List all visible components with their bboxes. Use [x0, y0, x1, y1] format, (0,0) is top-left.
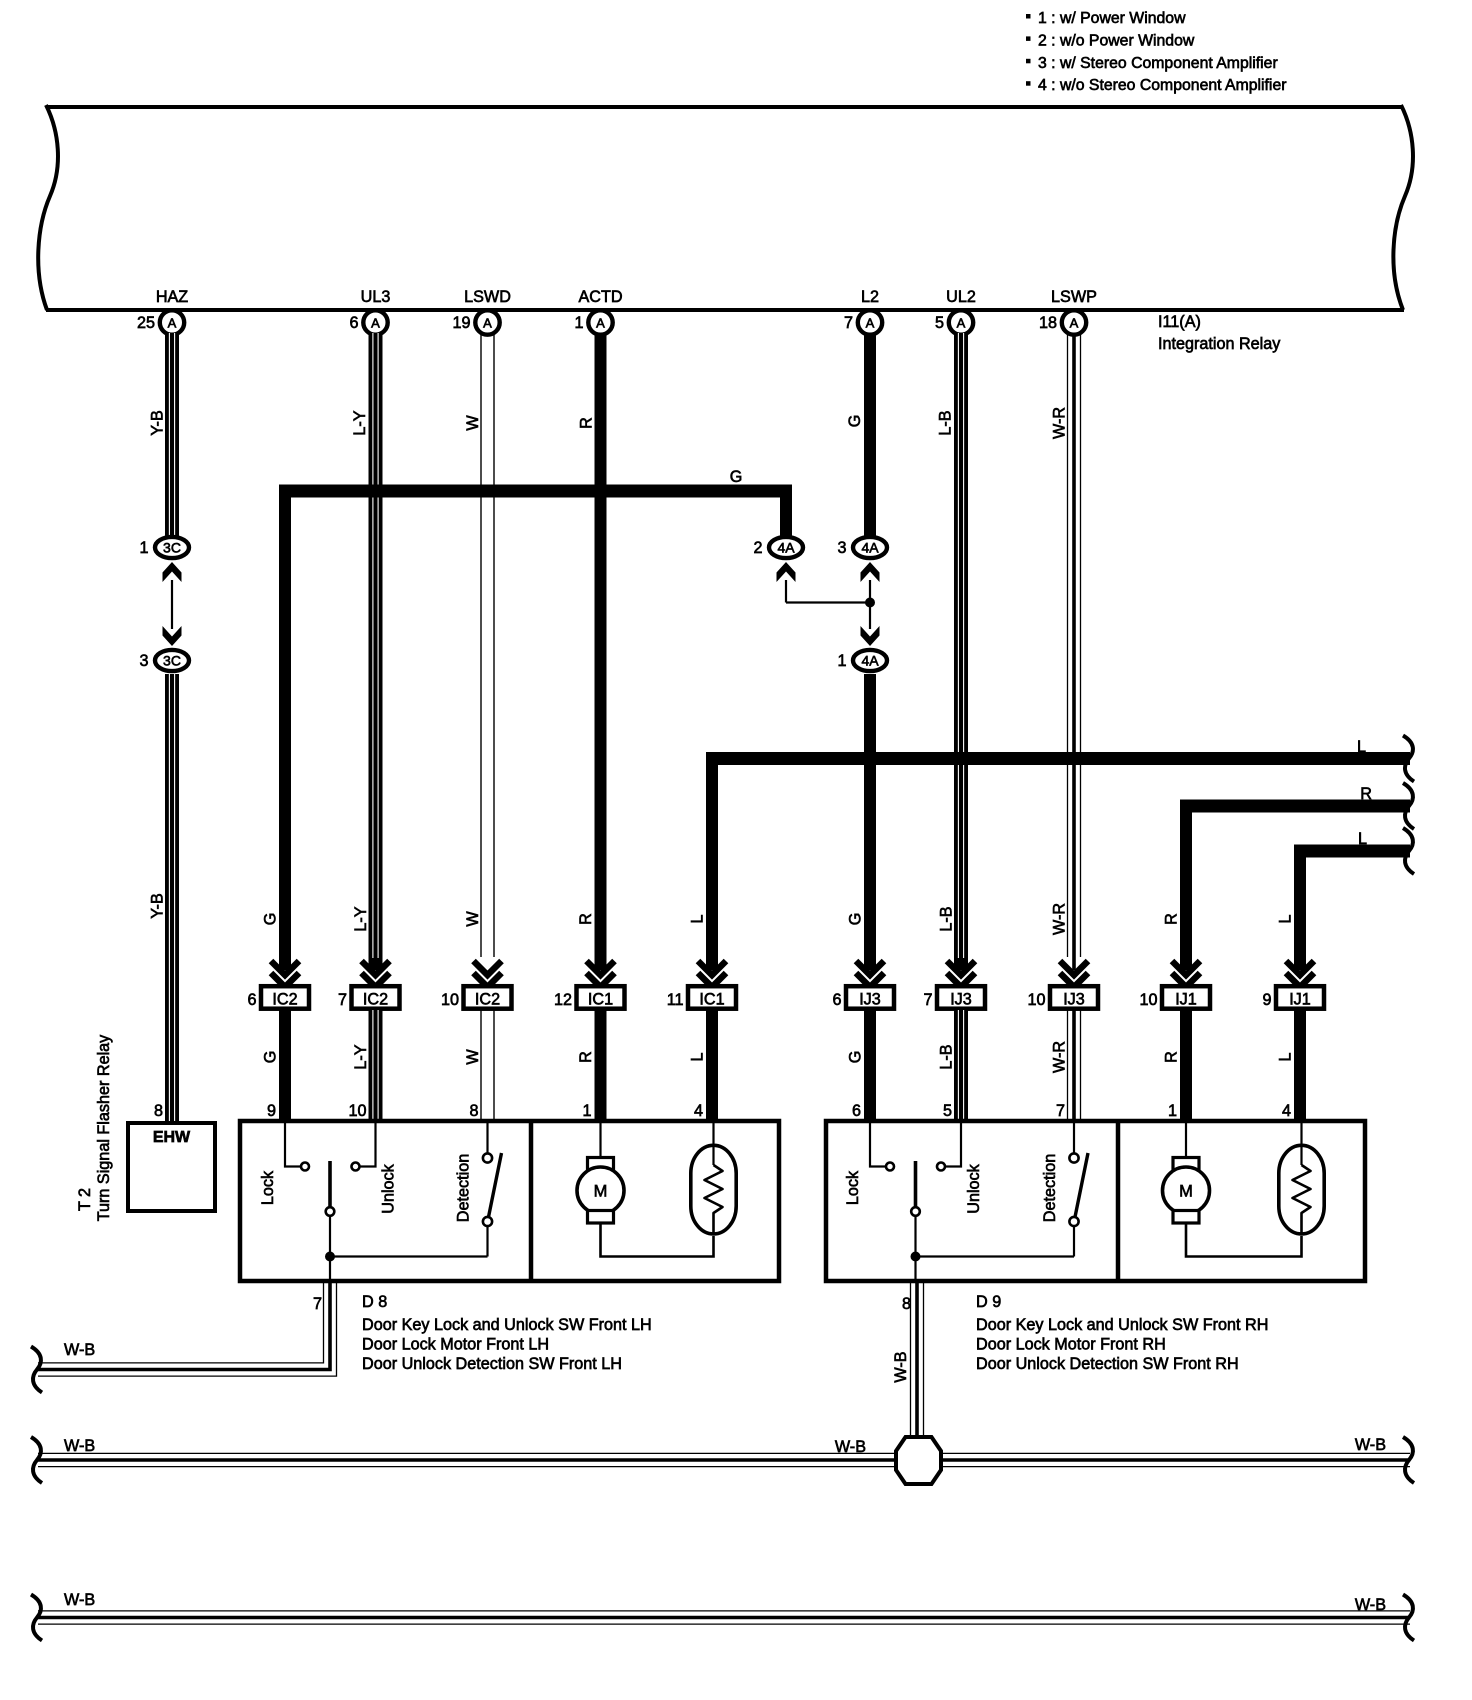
- svg-text:Integration Relay: Integration Relay: [1158, 335, 1281, 353]
- svg-text:W-B: W-B: [835, 1438, 866, 1456]
- svg-text:W-B: W-B: [1355, 1436, 1386, 1454]
- svg-text:Turn Signal Flasher Relay: Turn Signal Flasher Relay: [95, 1034, 113, 1221]
- svg-text:8: 8: [154, 1102, 163, 1120]
- svg-text:L: L: [1277, 914, 1295, 923]
- svg-text:Door Lock Motor Front RH: Door Lock Motor Front RH: [976, 1336, 1166, 1354]
- svg-text:L-Y: L-Y: [351, 410, 369, 435]
- svg-text:M: M: [594, 1183, 608, 1201]
- svg-text:11: 11: [667, 991, 684, 1009]
- svg-text:3 : w/ Stereo Component Amplif: 3 : w/ Stereo Component Amplifier: [1038, 55, 1278, 72]
- svg-text:10: 10: [1139, 991, 1157, 1009]
- svg-text:IC2: IC2: [363, 991, 388, 1009]
- svg-text:IC2: IC2: [272, 991, 297, 1009]
- svg-text:ACTD: ACTD: [578, 288, 622, 306]
- svg-text:Door Key Lock and Unlock SW Fr: Door Key Lock and Unlock SW Front LH: [362, 1316, 652, 1334]
- svg-text:LSWP: LSWP: [1051, 288, 1097, 306]
- svg-text:W-B: W-B: [64, 1591, 95, 1609]
- svg-text:IC2: IC2: [475, 991, 500, 1009]
- svg-text:W-B: W-B: [1355, 1596, 1386, 1614]
- svg-text:W-R: W-R: [1051, 407, 1069, 439]
- svg-text:M: M: [1179, 1183, 1193, 1201]
- svg-text:1: 1: [139, 539, 148, 557]
- svg-text:5: 5: [943, 1102, 952, 1120]
- svg-text:IJ3: IJ3: [859, 991, 881, 1009]
- svg-text:7: 7: [923, 991, 932, 1009]
- svg-text:A: A: [483, 316, 492, 331]
- svg-text:UL3: UL3: [361, 288, 391, 306]
- svg-text:IJ3: IJ3: [1063, 991, 1085, 1009]
- svg-text:L-Y: L-Y: [352, 1044, 370, 1069]
- svg-text:L: L: [1277, 1052, 1295, 1061]
- svg-text:W-B: W-B: [64, 1437, 95, 1455]
- svg-text:3: 3: [837, 539, 846, 557]
- svg-text:R: R: [578, 417, 596, 429]
- svg-text:Door Unlock Detection SW Front: Door Unlock Detection SW Front RH: [976, 1355, 1239, 1373]
- svg-text:W-R: W-R: [1051, 903, 1069, 935]
- svg-text:EHW: EHW: [153, 1129, 191, 1146]
- svg-text:Door Key Lock and Unlock SW Fr: Door Key Lock and Unlock SW Front RH: [976, 1316, 1268, 1334]
- svg-text:R: R: [1360, 785, 1372, 803]
- svg-text:G: G: [262, 913, 280, 926]
- svg-text:7: 7: [844, 314, 853, 332]
- svg-text:Lock: Lock: [844, 1170, 862, 1205]
- svg-text:25: 25: [137, 314, 155, 332]
- svg-text:10: 10: [1027, 991, 1045, 1009]
- svg-text:Lock: Lock: [259, 1170, 277, 1205]
- svg-text:T 2: T 2: [76, 1188, 94, 1211]
- svg-text:A: A: [371, 316, 380, 331]
- svg-text:1: 1: [837, 652, 846, 670]
- svg-text:L2: L2: [861, 288, 879, 306]
- svg-text:W-R: W-R: [1051, 1041, 1069, 1073]
- svg-text:19: 19: [452, 314, 470, 332]
- svg-text:R: R: [1163, 913, 1181, 925]
- svg-text:6: 6: [247, 991, 256, 1009]
- svg-text:UL2: UL2: [946, 288, 976, 306]
- svg-text:5: 5: [935, 314, 944, 332]
- svg-text:8: 8: [469, 1102, 478, 1120]
- svg-text:W: W: [464, 1049, 482, 1065]
- svg-text:W: W: [464, 911, 482, 927]
- svg-text:18: 18: [1039, 314, 1057, 332]
- svg-text:G: G: [262, 1051, 280, 1064]
- svg-text:4: 4: [1282, 1102, 1291, 1120]
- svg-text:1 : w/ Power Window: 1 : w/ Power Window: [1038, 10, 1186, 27]
- svg-text:10: 10: [348, 1102, 366, 1120]
- svg-text:Unlock: Unlock: [380, 1163, 398, 1213]
- svg-text:HAZ: HAZ: [156, 288, 188, 306]
- svg-text:7: 7: [338, 991, 347, 1009]
- svg-text:IC1: IC1: [699, 991, 724, 1009]
- svg-text:Detection: Detection: [455, 1154, 473, 1222]
- svg-text:R: R: [1163, 1051, 1181, 1063]
- svg-text:L: L: [689, 1052, 707, 1061]
- svg-text:9: 9: [1262, 991, 1271, 1009]
- svg-text:A: A: [1070, 316, 1079, 331]
- svg-text:2: 2: [753, 539, 762, 557]
- svg-text:7: 7: [1056, 1102, 1065, 1120]
- svg-text:12: 12: [554, 991, 572, 1009]
- svg-text:1: 1: [1168, 1102, 1177, 1120]
- svg-text:R: R: [577, 913, 595, 925]
- svg-text:3: 3: [139, 652, 148, 670]
- svg-text:L-Y: L-Y: [352, 906, 370, 931]
- svg-text:Detection: Detection: [1041, 1154, 1059, 1222]
- svg-text:W-B: W-B: [892, 1351, 910, 1382]
- svg-text:G: G: [846, 415, 864, 428]
- svg-text:D 8: D 8: [362, 1293, 387, 1311]
- svg-text:1: 1: [582, 1102, 591, 1120]
- svg-text:A: A: [596, 316, 605, 331]
- svg-text:IC1: IC1: [588, 991, 613, 1009]
- svg-text:Y-B: Y-B: [149, 410, 167, 436]
- svg-text:6: 6: [852, 1102, 861, 1120]
- svg-text:LSWD: LSWD: [464, 288, 511, 306]
- svg-text:1: 1: [574, 314, 583, 332]
- svg-text:Door Lock Motor Front LH: Door Lock Motor Front LH: [362, 1336, 549, 1354]
- svg-text:4A: 4A: [777, 540, 795, 556]
- svg-text:4 : w/o Stereo Component Ampli: 4 : w/o Stereo Component Amplifier: [1038, 77, 1287, 94]
- svg-text:L: L: [1358, 830, 1367, 848]
- svg-text:L: L: [689, 914, 707, 923]
- svg-text:8: 8: [902, 1295, 911, 1313]
- svg-text:7: 7: [313, 1295, 322, 1313]
- svg-text:L-B: L-B: [938, 906, 956, 931]
- svg-text:A: A: [957, 316, 966, 331]
- svg-text:4A: 4A: [861, 540, 879, 556]
- svg-text:A: A: [866, 316, 875, 331]
- svg-text:IJ3: IJ3: [950, 991, 972, 1009]
- svg-text:Y-B: Y-B: [149, 893, 167, 919]
- svg-text:Door Unlock Detection SW Front: Door Unlock Detection SW Front LH: [362, 1355, 622, 1373]
- svg-text:IJ1: IJ1: [1289, 991, 1311, 1009]
- svg-text:G: G: [847, 1051, 865, 1064]
- svg-text:G: G: [847, 913, 865, 926]
- svg-text:L: L: [1357, 738, 1366, 756]
- svg-text:3C: 3C: [163, 653, 181, 669]
- svg-text:6: 6: [832, 991, 841, 1009]
- svg-text:6: 6: [349, 314, 358, 332]
- svg-text:I11(A): I11(A): [1158, 313, 1201, 331]
- svg-text:10: 10: [441, 991, 459, 1009]
- svg-text:L-B: L-B: [937, 410, 955, 435]
- svg-text:Unlock: Unlock: [965, 1163, 983, 1213]
- svg-text:W-B: W-B: [64, 1341, 95, 1359]
- svg-text:2 : w/o Power Window: 2 : w/o Power Window: [1038, 32, 1195, 49]
- svg-text:L-B: L-B: [938, 1044, 956, 1069]
- svg-text:9: 9: [267, 1102, 276, 1120]
- svg-text:A: A: [168, 316, 177, 331]
- svg-text:R: R: [577, 1051, 595, 1063]
- svg-text:3C: 3C: [163, 540, 181, 556]
- svg-text:W: W: [464, 415, 482, 431]
- svg-text:4: 4: [694, 1102, 703, 1120]
- svg-text:4A: 4A: [861, 653, 879, 669]
- svg-text:G: G: [730, 468, 743, 486]
- svg-text:D 9: D 9: [976, 1293, 1001, 1311]
- svg-text:IJ1: IJ1: [1175, 991, 1197, 1009]
